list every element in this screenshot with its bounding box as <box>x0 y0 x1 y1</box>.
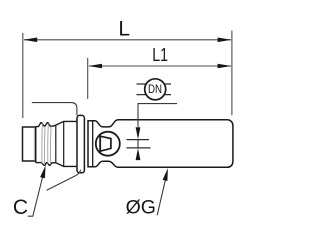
dimension L1 line <box>89 65 231 67</box>
DN symbol lower line <box>137 94 172 96</box>
ØG leader line <box>157 180 165 215</box>
dimension L arrow right <box>218 38 232 43</box>
thread flank line 2 <box>43 126 46 165</box>
dimension L extension line left <box>22 33 24 118</box>
plug tip cylinder <box>23 127 36 161</box>
DN symbol circle <box>145 79 166 100</box>
C leader line <box>28 176 43 216</box>
body face line <box>92 121 94 167</box>
thread end vertical <box>55 125 57 163</box>
collar lower leader <box>47 170 81 190</box>
DN dimension line middle <box>137 140 139 148</box>
DN dimension arrow up <box>136 148 141 160</box>
DN leader elbow <box>138 104 177 127</box>
dimension L1 extension line left <box>87 58 89 99</box>
dimension L line <box>24 39 231 41</box>
svg-text:DN: DN <box>148 84 162 96</box>
svg-text:L: L <box>118 17 130 40</box>
thread flank line 3 <box>47 124 50 165</box>
DN dimension tick bottom <box>127 147 151 149</box>
dimension L arrow left <box>23 38 37 43</box>
hex socket trapezoid <box>100 136 111 151</box>
dimension L/L1 extension line right <box>231 31 233 116</box>
hex socket circle <box>96 132 120 156</box>
body outline <box>88 120 233 168</box>
DN symbol upper line <box>137 83 172 85</box>
collar ring <box>77 115 84 172</box>
dimension L1 arrow right <box>218 64 232 69</box>
cone end vertical <box>63 121 65 166</box>
svg-text:ØG: ØG <box>126 197 156 219</box>
svg-text:C: C <box>13 196 28 219</box>
tip right edge line <box>35 127 37 163</box>
thread profile bottom <box>36 163 77 167</box>
thread flank line 1 <box>41 124 44 165</box>
svg-text:L1: L1 <box>152 44 168 65</box>
dimension L1 arrow left <box>88 64 102 69</box>
DN dimension tick top <box>127 139 150 141</box>
C leader arrowhead <box>40 165 46 178</box>
tip chamfer faint line <box>33 128 35 161</box>
thread flank line 4 <box>49 126 52 164</box>
collar top leader <box>32 103 77 116</box>
DN dimension arrow down <box>136 127 141 139</box>
ØG leader arrowhead <box>163 168 168 181</box>
thread profile top <box>36 121 77 126</box>
